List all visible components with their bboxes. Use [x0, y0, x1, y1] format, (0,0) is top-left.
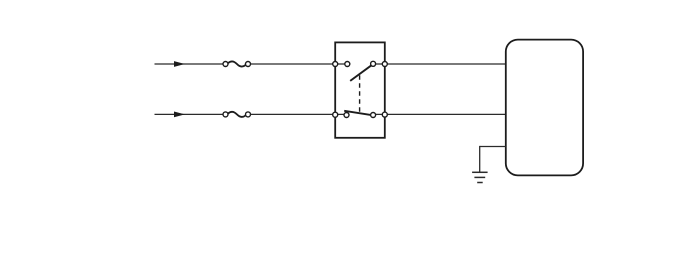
fuse (top line)	[223, 61, 251, 66]
switch housing (box)	[335, 42, 385, 137]
top input arrow	[174, 61, 185, 67]
wire: switch to connector (top)	[373, 63, 506, 65]
wire: top fuse to switch	[251, 63, 348, 65]
ground symbol	[472, 172, 488, 182]
bottom input wire	[155, 113, 224, 115]
wire: bottom fuse to switch	[251, 113, 348, 115]
ground wire (vertical)	[479, 146, 481, 172]
mechanical linkage (dashed)	[359, 75, 361, 112]
wire: switch to connector (bottom)	[373, 113, 506, 115]
fuse (bottom line)	[223, 112, 251, 117]
connector / control unit (rounded box)	[506, 40, 583, 176]
switch terminals (top pole)	[333, 61, 388, 66]
bottom input arrow	[174, 112, 185, 118]
switch bottom-pole blade	[344, 111, 370, 115]
top input wire	[155, 63, 224, 65]
ground wire (horizontal)	[480, 146, 506, 148]
switch terminals (bottom pole)	[333, 112, 388, 117]
switch top-pole blade	[350, 65, 371, 81]
